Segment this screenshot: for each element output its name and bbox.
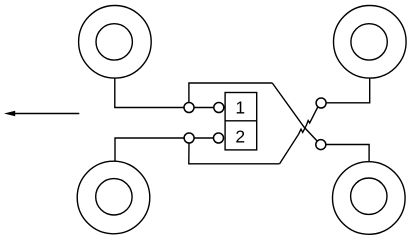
wire rear-right contact to wheel	[326, 145, 370, 162]
svg-text:1: 1	[235, 97, 245, 117]
wire junction2 to pin2	[194, 137, 214, 139]
wheel front-right outer	[334, 6, 407, 79]
wheel front-left inner	[96, 24, 132, 60]
wheel rear-left inner	[96, 179, 132, 215]
wire rear-left wheel stem	[115, 138, 185, 161]
wheel front-right inner	[351, 24, 387, 60]
contact circle front-right	[316, 98, 326, 108]
wheel rear-right outer	[333, 162, 406, 235]
wire diagonal A top edge to rear-right contact	[272, 83, 317, 141]
direction arrow	[4, 111, 79, 116]
wheel front-left outer	[79, 6, 152, 79]
wire front-left wheel stem	[115, 78, 184, 107]
svg-text:2: 2	[235, 127, 245, 147]
contact circle rear-right	[316, 140, 326, 150]
wire front-right contact to wheel	[325, 78, 370, 103]
wire junction1 up and top edge	[189, 83, 272, 102]
wire junction2 down and bottom edge	[189, 143, 280, 164]
wheel rear-right inner	[351, 178, 387, 214]
wire junction1 to pin1	[194, 107, 214, 109]
junction circle J1	[184, 103, 194, 113]
pin circle P1	[214, 103, 224, 113]
divider	[225, 120, 257, 122]
wire diagonal B bottom edge to front-right contact (with jump)	[280, 107, 318, 164]
pin circle P2	[214, 133, 224, 143]
wheel rear-left outer	[77, 161, 150, 234]
junction circle J2	[184, 133, 194, 143]
connector block	[225, 93, 257, 150]
